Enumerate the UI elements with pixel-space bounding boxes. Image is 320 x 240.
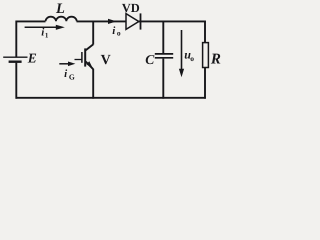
svg-text:L: L bbox=[55, 1, 65, 17]
svg-text:R: R bbox=[210, 51, 221, 67]
svg-text:E: E bbox=[27, 51, 37, 66]
svg-text:C: C bbox=[145, 52, 155, 67]
svg-text:1: 1 bbox=[45, 31, 49, 39]
svg-text:G: G bbox=[69, 73, 75, 82]
svg-text:o: o bbox=[190, 54, 194, 63]
svg-text:o: o bbox=[117, 28, 121, 37]
svg-text:V: V bbox=[101, 53, 111, 68]
svg-text:VD: VD bbox=[122, 1, 140, 15]
